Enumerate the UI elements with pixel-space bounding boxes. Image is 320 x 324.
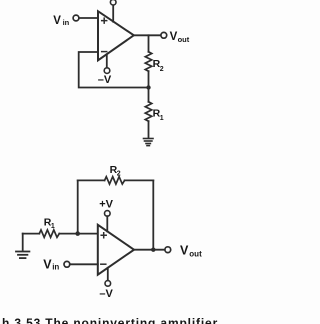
svg-text:2: 2 [117, 170, 121, 177]
resistor R1 (bottom circuit) [39, 230, 59, 237]
svg-text:1: 1 [160, 115, 164, 122]
wire Vin to - input (bottom) [70, 263, 98, 265]
label Vin (top) [53, 15, 69, 27]
svg-text:in: in [52, 263, 59, 272]
label R1 (top) [153, 107, 164, 122]
op-amp U1 (top, noninverting) [98, 11, 134, 60]
svg-text:2: 2 [160, 66, 164, 73]
-V supply terminal (top op-amp) [104, 54, 110, 73]
wire output (bottom op-amp to Vout terminal) [134, 249, 165, 251]
svg-text:–V: –V [98, 74, 112, 86]
label Vout (bottom) [180, 244, 202, 259]
resistor R2 (bottom circuit, feedback) [78, 177, 154, 184]
node Vin terminal (top) [73, 15, 79, 21]
ground (bottom circuit) [16, 234, 29, 259]
wire R2 right vertical down to output (bottom) [152, 180, 154, 249]
svg-text:in: in [63, 18, 70, 27]
svg-text:V: V [53, 15, 61, 27]
+V supply terminal (top op-amp) [110, 0, 116, 22]
svg-text:h 3.53 The noninverting amplif: h 3.53 The noninverting amplifier [2, 316, 218, 324]
label Vin (bottom) [43, 257, 59, 271]
node Vout terminal (top) [161, 32, 167, 38]
svg-text:1: 1 [51, 223, 55, 230]
resistor R1 (top circuit) [145, 102, 151, 121]
wire Vin to + input (top) [79, 17, 98, 19]
wire R2 bottom to junction (top) [148, 71, 150, 87]
ground (top circuit) [144, 139, 154, 146]
wire junction down to R1 (top) [148, 88, 150, 102]
label R2 (bottom) [110, 164, 121, 177]
node Vin terminal (bottom) [64, 261, 70, 267]
+V supply terminal (bottom op-amp) [105, 211, 111, 232]
wire feedback loop to - input (top) [79, 52, 149, 88]
-V supply terminal (bottom op-amp) [105, 268, 111, 286]
node feedback junction (top) [146, 85, 150, 89]
label R2 (top) [153, 58, 164, 73]
node Vout terminal (bottom) [165, 247, 171, 253]
op-amp U2 (bottom) [98, 225, 134, 275]
label R1 (bottom) [44, 217, 55, 230]
node junction R1/R2/+input (bottom) [75, 231, 80, 236]
node output junction (bottom) [151, 248, 155, 252]
svg-text:–V: –V [99, 288, 113, 300]
resistor R2 (top circuit) [145, 52, 151, 71]
svg-text:out: out [189, 249, 202, 258]
svg-text:V: V [170, 31, 178, 43]
svg-text:+V: +V [99, 199, 113, 211]
wire ground to R1 (bottom) [23, 233, 40, 235]
wire output tee down to R2 (top) [148, 35, 150, 52]
wire output (top op-amp to Vout terminal) [134, 34, 161, 36]
svg-text:out: out [178, 35, 190, 44]
wire R2 left vertical down to junction (bottom) [77, 180, 79, 233]
svg-text:V: V [43, 257, 52, 271]
svg-text:V: V [180, 244, 189, 258]
wire R1 bottom to ground (top) [148, 121, 150, 137]
wire R1 to + input junction (bottom) [59, 233, 98, 235]
label Vout (top) [170, 31, 190, 44]
